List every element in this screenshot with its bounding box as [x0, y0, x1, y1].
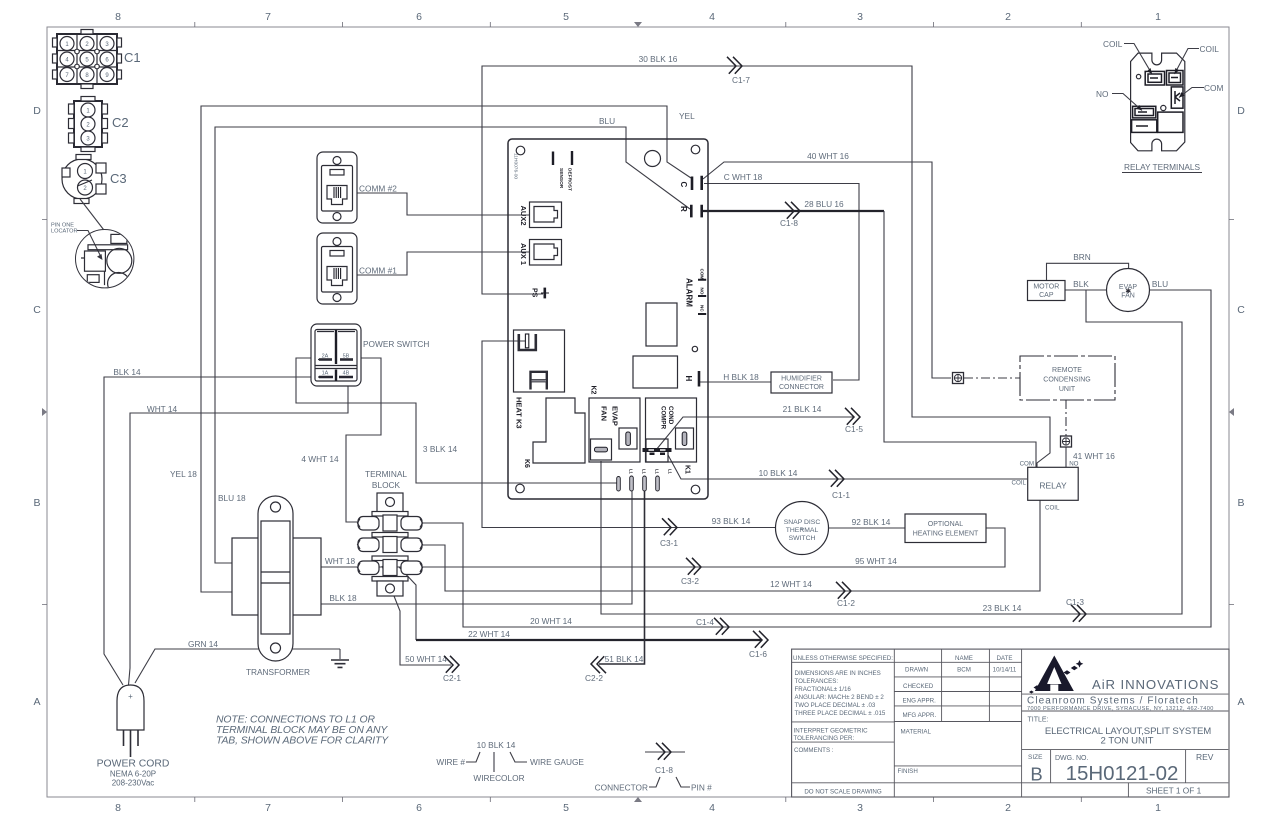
svg-text:OPTIONAL: OPTIONAL — [928, 521, 964, 528]
svg-text:NAME: NAME — [955, 655, 973, 662]
svg-text:C1-1: C1-1 — [832, 490, 850, 500]
relay K5 rectangle — [633, 356, 678, 388]
svg-text:BLU: BLU — [599, 116, 615, 126]
wire 92 BLK 14 : snap disc to heating element — [829, 517, 905, 528]
svg-text:NC: NC — [699, 305, 704, 312]
svg-text:22 WHT 14: 22 WHT 14 — [468, 629, 510, 639]
svg-text:BLK 14: BLK 14 — [113, 367, 141, 377]
svg-text:L1: L1 — [668, 469, 673, 475]
svg-text:CONNECTOR: CONNECTOR — [779, 384, 824, 391]
connector C3 — [62, 155, 127, 204]
wire 23 BLK 14 : evap fan terminal to motor cap BLK — [601, 290, 1182, 622]
connector C1 — [53, 30, 141, 89]
wire BLK 14 : power switch 1A to power cord — [104, 367, 320, 685]
wire 4 WHT 14 : power switch 5B to terminal block row1 — [301, 358, 381, 522]
wire H BLK 18 : H to humidifier connector — [700, 372, 771, 382]
ALARM terminals — [685, 269, 707, 315]
wire GRN 14 : power cord to ground — [135, 639, 340, 683]
big hole — [645, 151, 661, 167]
svg-text:REMOTE: REMOTE — [1052, 367, 1082, 374]
small hole — [692, 346, 697, 351]
svg-text:15H0121-02: 15H0121-02 — [1066, 762, 1179, 785]
svg-text:A: A — [1237, 696, 1244, 708]
svg-text:WIRE #: WIRE # — [436, 757, 465, 767]
optional heating element box — [905, 514, 986, 543]
bottom terminal slots — [617, 469, 673, 491]
svg-text:NO: NO — [1096, 89, 1109, 99]
svg-text:7: 7 — [265, 11, 271, 23]
svg-text:4: 4 — [709, 802, 715, 814]
connector symbol on 40WHT16 — [953, 373, 964, 384]
svg-text:WIRE GAUGE: WIRE GAUGE — [530, 757, 584, 767]
svg-text:GRN 14: GRN 14 — [188, 639, 218, 649]
svg-text:COM: COM — [1020, 461, 1034, 468]
svg-text:COIL: COIL — [1103, 39, 1123, 49]
svg-text:AUX 1: AUX 1 — [519, 243, 528, 265]
svg-text:C1-6: C1-6 — [749, 649, 767, 659]
svg-text:C1: C1 — [124, 50, 141, 65]
svg-text:4B: 4B — [343, 371, 350, 377]
svg-text:2 TON UNIT: 2 TON UNIT — [1101, 736, 1154, 747]
evap fan circle — [1107, 269, 1150, 312]
svg-text:C: C — [33, 304, 41, 316]
svg-text:C2-1: C2-1 — [443, 673, 461, 683]
svg-text:BLU: BLU — [1152, 279, 1168, 289]
svg-text:+: + — [128, 692, 133, 701]
motor cap box — [1028, 281, 1066, 301]
svg-text:CONDENSING: CONDENSING — [1043, 377, 1090, 384]
svg-text:POWER SWITCH: POWER SWITCH — [363, 339, 429, 349]
wire COMM1 to AUX1 — [350, 252, 529, 275]
svg-text:41 WHT 16: 41 WHT 16 — [1073, 451, 1115, 461]
svg-text:BCM: BCM — [957, 667, 971, 674]
svg-text:ALARM: ALARM — [685, 278, 694, 307]
svg-text:NO: NO — [699, 288, 704, 295]
relay terminals detail — [1096, 39, 1223, 173]
svg-text:CONNECTOR: CONNECTOR — [595, 783, 648, 793]
svg-text:UNLESS OTHERWISE SPECIFIED:: UNLESS OTHERWISE SPECIFIED: — [793, 655, 893, 662]
svg-text:COND: COND — [667, 406, 674, 425]
connector symbol above relay NO — [1061, 436, 1072, 447]
wire 41 WHT 16 : connection to relay NO (solid part) — [1066, 447, 1115, 467]
svg-text:5: 5 — [563, 11, 569, 23]
wire WHT 14 : power switch 4B to power cord — [129, 379, 349, 685]
svg-text:*: * — [801, 526, 804, 535]
svg-text:8: 8 — [115, 802, 121, 814]
svg-text:2: 2 — [1005, 11, 1011, 23]
svg-text:H BLK 18: H BLK 18 — [723, 372, 759, 382]
zone boundary ticks left/right — [42, 220, 1234, 605]
svg-text:UNIT: UNIT — [1059, 386, 1076, 393]
svg-text:PS: PS — [531, 288, 538, 298]
wire label legend — [436, 740, 584, 783]
svg-text:BLK 18: BLK 18 — [329, 593, 357, 603]
svg-text:C3: C3 — [110, 171, 127, 186]
svg-text:D: D — [1237, 105, 1245, 117]
svg-text:3: 3 — [857, 11, 863, 23]
svg-text:92 BLK 14: 92 BLK 14 — [852, 517, 891, 527]
svg-text:COMM #1: COMM #1 — [359, 266, 397, 276]
AUX2 jack — [519, 202, 562, 228]
svg-text:C3-2: C3-2 — [681, 576, 699, 586]
relay box — [1012, 461, 1079, 512]
svg-text:R: R — [679, 206, 688, 212]
svg-text:FAN: FAN — [600, 406, 609, 421]
R terminal — [679, 205, 702, 218]
svg-text:Cleanroom Systems / Floratec: Cleanroom Systems / Floratech — [1027, 696, 1199, 707]
svg-text:ENG APPR.: ENG APPR. — [903, 698, 937, 705]
snap disc thermal switch — [776, 502, 829, 555]
wire WHT 18 / 95 WHT 14 : transformer to heating element — [321, 528, 1005, 586]
svg-text:DIMENSIONS ARE IN INCHES: DIMENSIONS ARE IN INCHES — [795, 670, 881, 677]
K2 EVAP FAN relay — [589, 386, 640, 463]
HEAT K3 relay — [514, 330, 565, 429]
wire COMM2 to AUX2 — [350, 193, 529, 215]
svg-text:SIZE: SIZE — [1028, 754, 1043, 761]
connector C2 — [69, 97, 129, 152]
power cord plug — [97, 685, 170, 788]
svg-text:D: D — [33, 105, 41, 117]
svg-text:RELAY: RELAY — [1039, 481, 1067, 491]
zone letters left — [33, 105, 41, 708]
svg-text:30 BLK 16: 30 BLK 16 — [639, 54, 678, 64]
svg-text:B: B — [1237, 497, 1244, 509]
svg-text:HEATING ELEMENT: HEATING ELEMENT — [913, 531, 979, 538]
wire 51 BLK 14 : board slot to C2-2 — [585, 491, 644, 683]
connector symbol legend — [595, 743, 712, 793]
svg-text:AUX2: AUX2 — [519, 206, 528, 226]
svg-text:C1-2: C1-2 — [837, 598, 855, 608]
svg-text:1: 1 — [1155, 11, 1161, 23]
svg-text:C2: C2 — [112, 115, 129, 130]
svg-text:3: 3 — [857, 802, 863, 814]
svg-text:NOTE: CONNECTIONS TO L1 OR: NOTE: CONNECTIONS TO L1 OR — [216, 715, 375, 726]
svg-text:COIL: COIL — [1200, 44, 1220, 54]
svg-text:TERMINAL BLOCK MAY BE ON ANY: TERMINAL BLOCK MAY BE ON ANY — [216, 725, 388, 736]
svg-text:L1: L1 — [642, 469, 647, 475]
svg-text:C WHT 18: C WHT 18 — [724, 172, 763, 182]
svg-text:WHT 18: WHT 18 — [325, 556, 356, 566]
control board 11H0076-00 — [508, 139, 708, 499]
svg-text:MOTOR: MOTOR — [1033, 284, 1059, 291]
svg-text:ANGULAR: MACH± 2 BEND ± 2: ANGULAR: MACH± 2 BEND ± 2 — [795, 694, 885, 701]
wire 12 WHT 14 : terminal block row2 to relay coil — [421, 500, 1040, 608]
svg-text:CHECKED: CHECKED — [903, 683, 934, 690]
svg-text:BLOCK: BLOCK — [372, 480, 401, 490]
svg-text:10 BLK 14: 10 BLK 14 — [477, 740, 516, 750]
zone boundary ticks bottom — [195, 797, 1082, 802]
svg-text:L1: L1 — [629, 469, 634, 475]
svg-text:C: C — [679, 182, 688, 188]
svg-text:TWO PLACE DECIMAL ± .03: TWO PLACE DECIMAL ± .03 — [795, 702, 876, 709]
svg-text:40 WHT 16: 40 WHT 16 — [807, 151, 849, 161]
wire 93 BLK 14 : heat K3 to snap disc — [482, 341, 775, 548]
svg-text:AiR INNOVATIONS: AiR INNOVATIONS — [1092, 677, 1219, 692]
svg-text:NEMA 6-20P: NEMA 6-20P — [110, 770, 156, 779]
svg-text:K6: K6 — [523, 459, 530, 468]
svg-text:COIL: COIL — [1045, 505, 1060, 512]
COMM #2 wall plate — [317, 152, 397, 223]
wire YEL to C terminal — [170, 106, 695, 592]
svg-text:23 BLK 14: 23 BLK 14 — [983, 603, 1022, 613]
wire BLK 18 : transformer to board slot — [321, 491, 632, 604]
svg-text:6: 6 — [416, 11, 422, 23]
PS terminal — [531, 288, 550, 299]
svg-text:2: 2 — [1005, 802, 1011, 814]
svg-text:INTERPRET GEOMETRIC: INTERPRET GEOMETRIC — [794, 728, 869, 735]
svg-text:C3-1: C3-1 — [660, 538, 678, 548]
wire 40 WHT 16 : C to remote condensing unit — [703, 151, 951, 378]
svg-text:93 BLK 14: 93 BLK 14 — [712, 516, 751, 526]
svg-text:DWG. NO.: DWG. NO. — [1055, 755, 1088, 762]
svg-text:TOLERANCES:: TOLERANCES: — [795, 678, 839, 685]
wire BRN : motor cap to evap fan — [1047, 252, 1129, 281]
svg-text:50 WHT 14: 50 WHT 14 — [405, 654, 447, 664]
svg-text:10 BLK 14: 10 BLK 14 — [759, 468, 798, 478]
svg-text:B: B — [1030, 764, 1042, 785]
svg-text:BRN: BRN — [1073, 252, 1091, 262]
AUX1 jack — [519, 240, 562, 266]
svg-text:28 BLU 16: 28 BLU 16 — [804, 199, 844, 209]
svg-text:1: 1 — [1155, 802, 1161, 814]
svg-text:C2-2: C2-2 — [585, 673, 603, 683]
svg-text:POWER CORD: POWER CORD — [97, 759, 170, 770]
svg-text:TAB, SHOWN ABOVE FOR CLARITY: TAB, SHOWN ABOVE FOR CLARITY — [216, 736, 389, 747]
transformer — [232, 496, 321, 677]
svg-text:L1: L1 — [655, 469, 660, 475]
svg-text:CAP: CAP — [1039, 292, 1054, 299]
wire 20 WHT 14 : terminal block row1 to evap fan BLU — [421, 290, 1211, 635]
svg-text:BLU 18: BLU 18 — [218, 493, 246, 503]
svg-text:FAN: FAN — [1121, 293, 1135, 300]
svg-text:C1-7: C1-7 — [732, 75, 750, 85]
svg-text:WHT 14: WHT 14 — [147, 404, 178, 414]
wire 30 BLK 16 : PS to relay COM — [482, 54, 1050, 467]
COMM #1 wall plate — [317, 233, 397, 304]
ground symbol — [331, 649, 349, 667]
power switch — [311, 324, 429, 386]
terminal block — [358, 469, 423, 596]
svg-text:HUMIDIFIER: HUMIDIFIER — [781, 376, 822, 383]
svg-text:COM: COM — [1204, 83, 1223, 93]
svg-text:TOLERANCING PER:: TOLERANCING PER: — [794, 735, 855, 742]
mounting holes — [516, 146, 525, 155]
svg-text:COMPR: COMPR — [660, 406, 667, 430]
K1 COND COMPR relay — [643, 398, 697, 474]
wire 28 BLU 16 : R to relay COM — [703, 199, 1036, 467]
svg-text:COMMENTS :: COMMENTS : — [794, 747, 834, 754]
svg-text:21 BLK 14: 21 BLK 14 — [783, 404, 822, 414]
wire 21 BLK 14 : K1 to C1-5 — [656, 404, 863, 450]
wire BLU to R terminal — [215, 127, 690, 563]
dash-dot link remote condensing unit to 41WHT16 connector — [1065, 400, 1067, 436]
svg-text:K2: K2 — [590, 386, 597, 395]
svg-text:C1-8: C1-8 — [780, 218, 798, 228]
defrost sensor slots — [553, 151, 572, 165]
svg-text:C1-3: C1-3 — [1066, 597, 1084, 607]
svg-text:WIRECOLOR: WIRECOLOR — [473, 773, 524, 783]
svg-text:RELAY TERMINALS: RELAY TERMINALS — [1124, 162, 1201, 172]
svg-text:A: A — [33, 696, 40, 708]
svg-text:1A: 1A — [322, 371, 329, 377]
pin one locator detail — [51, 199, 134, 295]
svg-text:HEAT K3: HEAT K3 — [515, 397, 524, 429]
svg-text:MATERIAL: MATERIAL — [901, 729, 932, 736]
svg-text:7000 PERFORMANCE DRIVE, SYRACU: 7000 PERFORMANCE DRIVE, SYRACUSE, NY, 13… — [1027, 706, 1214, 712]
svg-text:SENSOR: SENSOR — [558, 168, 564, 189]
svg-text:11H0076-00: 11H0076-00 — [513, 153, 519, 179]
svg-text:DATE: DATE — [996, 655, 1012, 662]
svg-text:5: 5 — [563, 802, 569, 814]
svg-text:EVAP: EVAP — [611, 406, 620, 426]
zone numbers top — [115, 11, 1161, 23]
svg-text:3 BLK 14: 3 BLK 14 — [423, 444, 458, 454]
svg-text:COM: COM — [699, 269, 704, 280]
svg-text:6: 6 — [416, 802, 422, 814]
wire 10 BLK 14 : K1 to relay coil — [668, 455, 1027, 500]
remote condensing unit box — [1020, 356, 1115, 400]
svg-text:C1-4: C1-4 — [696, 617, 714, 627]
svg-text:7: 7 — [265, 802, 271, 814]
svg-text:51 BLK 14: 51 BLK 14 — [605, 654, 644, 664]
svg-text:DO NOT SCALE DRAWING: DO NOT SCALE DRAWING — [804, 789, 882, 796]
svg-text:H: H — [684, 376, 693, 382]
svg-text:FINISH: FINISH — [898, 768, 918, 775]
svg-text:MFG APPR.: MFG APPR. — [903, 712, 937, 719]
svg-text:THREE PLACE DECIMAL ± .015: THREE PLACE DECIMAL ± .015 — [795, 710, 886, 717]
svg-text:20 WHT 14: 20 WHT 14 — [530, 616, 572, 626]
wire C WHT 18 : C to humidifier connector — [704, 172, 859, 380]
svg-text:DRAWN: DRAWN — [905, 667, 928, 674]
wire 3 BLK 14 : power switch 2A to board slot — [296, 358, 617, 483]
svg-text:8: 8 — [115, 11, 121, 23]
svg-text:K1: K1 — [684, 465, 691, 474]
svg-text:B: B — [33, 497, 40, 509]
svg-text:4 WHT 14: 4 WHT 14 — [301, 454, 339, 464]
centre arrows — [634, 22, 642, 802]
svg-text:FRACTIONAL± 1/16: FRACTIONAL± 1/16 — [795, 686, 852, 693]
svg-text:BLK: BLK — [1073, 279, 1089, 289]
H terminal — [684, 371, 699, 387]
title block — [792, 649, 1229, 797]
svg-text:YEL 18: YEL 18 — [170, 469, 197, 479]
svg-text:COMM #2: COMM #2 — [359, 184, 397, 194]
svg-text:NO: NO — [1069, 461, 1078, 468]
svg-text:LOCATOR: LOCATOR — [51, 229, 78, 235]
svg-text:TITLE:: TITLE: — [1028, 717, 1049, 724]
svg-text:SHEET 1 OF 1: SHEET 1 OF 1 — [1146, 786, 1202, 796]
svg-text:TERMINAL: TERMINAL — [365, 469, 407, 479]
note text — [216, 715, 389, 747]
svg-text:C: C — [1237, 304, 1245, 316]
zone letters right — [1237, 105, 1245, 708]
C terminal — [679, 176, 702, 190]
svg-text:95 WHT 14: 95 WHT 14 — [855, 556, 897, 566]
svg-text:REV: REV — [1196, 752, 1214, 762]
zone boundary ticks top — [195, 22, 1082, 27]
svg-text:10/14/11: 10/14/11 — [993, 667, 1017, 674]
svg-text:SWITCH: SWITCH — [789, 535, 816, 542]
wire 22 WHT 14 : terminal block to C1-6 — [399, 567, 768, 659]
relay K4 rectangle — [646, 303, 677, 346]
svg-text:YEL: YEL — [679, 111, 695, 121]
svg-text:PIN #: PIN # — [691, 783, 712, 793]
zone numbers bottom — [115, 802, 1161, 814]
svg-text:4: 4 — [709, 11, 715, 23]
svg-text:C1-8: C1-8 — [655, 765, 673, 775]
wire BLK : motor cap to evap fan — [1065, 279, 1168, 290]
svg-text:C1-5: C1-5 — [845, 424, 863, 434]
svg-text:12 WHT 14: 12 WHT 14 — [770, 579, 812, 589]
svg-text:TRANSFORMER: TRANSFORMER — [246, 667, 310, 677]
K6 relay outline — [523, 398, 585, 468]
svg-text:208-230Vac: 208-230Vac — [112, 779, 155, 788]
svg-text:COIL: COIL — [1012, 480, 1027, 487]
air innovations logo — [1029, 656, 1083, 694]
svg-text:DEFROST: DEFROST — [566, 168, 572, 191]
dash-dot link to remote condensing unit — [964, 377, 1020, 379]
wire 50 WHT 14 : terminal block to C2-1 — [382, 566, 461, 683]
humidifier connector box — [771, 372, 832, 393]
